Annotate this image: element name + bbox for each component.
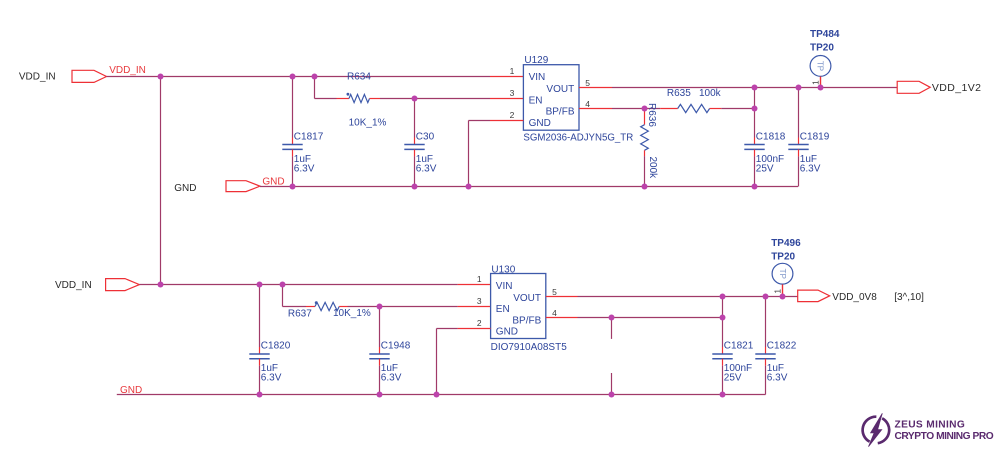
port GND (top circuit) — [226, 181, 260, 192]
svg-text:TP20: TP20 — [771, 251, 795, 262]
capacitor C1821 wire lower — [722, 359, 724, 366]
wire pin5 stub VOUT (red) — [579, 87, 612, 89]
svg-text:R637: R637 — [288, 308, 312, 319]
port VDD_1V2 — [897, 81, 930, 93]
svg-text:6.3V: 6.3V — [294, 163, 315, 174]
svg-text:1: 1 — [510, 66, 515, 76]
pin-1 dot R637 — [315, 301, 318, 304]
wire BP/FB net (bottom) — [578, 317, 723, 319]
svg-text:C1818: C1818 — [756, 132, 786, 143]
resistor R637 — [315, 302, 339, 310]
wire pin3 stub EN (red) — [490, 98, 523, 100]
wire pin1 stub VIN (red) — [490, 76, 523, 78]
svg-text:TP484: TP484 — [810, 29, 840, 40]
svg-text:10K_1%: 10K_1% — [349, 117, 387, 128]
svg-text:6.3V: 6.3V — [416, 163, 437, 174]
capacitor C1818 wire upper — [754, 88, 756, 138]
svg-text:EN: EN — [529, 95, 543, 106]
wire R635 left lead (red) — [660, 108, 678, 110]
svg-text:100k: 100k — [699, 88, 722, 99]
wire pin2 GND (U130) — [458, 328, 491, 330]
svg-text:C30: C30 — [416, 132, 435, 143]
svg-text:DIO7910A08ST5: DIO7910A08ST5 — [491, 342, 568, 353]
wire GND rail (bottom circuit) — [117, 394, 766, 396]
svg-text:6.3V: 6.3V — [261, 372, 282, 383]
svg-text:GND: GND — [496, 327, 518, 338]
svg-text:5: 5 — [585, 78, 590, 88]
svg-text:TP: TP — [816, 61, 825, 71]
capacitor C1818 wire lower — [754, 149, 756, 156]
capacitor C1948 wire upper — [379, 307, 381, 348]
capacitor C1822 wire lower — [765, 359, 767, 366]
wire R637 right lead — [339, 306, 347, 308]
svg-text:2: 2 — [477, 318, 482, 328]
svg-text:C1948: C1948 — [381, 341, 411, 352]
svg-text:CRYPTO MINING PRO: CRYPTO MINING PRO — [895, 431, 994, 442]
wire R634 branch vertical — [314, 77, 316, 99]
svg-text:C1819: C1819 — [800, 132, 830, 143]
wire VOUT net to VDD_0V8 — [578, 296, 798, 298]
wire R634 left lead — [315, 98, 337, 100]
op-amp U129 body — [523, 65, 579, 131]
svg-text:10K_1%: 10K_1% — [333, 308, 371, 319]
svg-text:VDD_0V8: VDD_0V8 — [832, 292, 877, 303]
svg-text:U129: U129 — [524, 55, 548, 66]
svg-text:SGM2036-ADJYN5G_TR: SGM2036-ADJYN5G_TR — [523, 133, 633, 144]
resistor R636 — [641, 125, 649, 151]
junction dots (top circuit) — [158, 74, 164, 80]
wire pin3 stub EN U130 (red) — [458, 306, 491, 308]
wire R636 bottom lead — [644, 150, 646, 156]
svg-text:[3^,10]: [3^,10] — [894, 292, 924, 303]
wire R636 top lead (red) — [644, 109, 646, 125]
svg-text:3: 3 — [477, 296, 482, 306]
svg-text:R635: R635 — [667, 88, 691, 99]
svg-text:VOUT: VOUT — [546, 84, 574, 95]
svg-text:VOUT: VOUT — [513, 293, 541, 304]
svg-text:EN: EN — [496, 304, 510, 315]
logo Zeus Mining emblem — [863, 413, 890, 446]
capacitor C1820 — [249, 353, 269, 355]
wire BP/FB to R635 — [612, 108, 660, 110]
svg-text:C1817: C1817 — [294, 132, 324, 143]
wire pin2 GND (U129) — [490, 120, 523, 122]
svg-text:1: 1 — [810, 80, 820, 85]
capacitor C1817 wire upper — [292, 77, 294, 138]
resistor R635 — [678, 104, 710, 112]
svg-text:6.3V: 6.3V — [767, 372, 788, 383]
svg-text:BP/FB: BP/FB — [546, 107, 575, 118]
svg-text:R636: R636 — [646, 103, 657, 127]
svg-text:VDD_1V2: VDD_1V2 — [932, 82, 982, 94]
capacitor C1948 wire lower — [379, 359, 381, 366]
capacitor C30 wire upper — [414, 99, 416, 138]
wire R637 left lead — [283, 306, 307, 308]
svg-text:TP496: TP496 — [771, 238, 801, 249]
capacitor C1821 — [712, 353, 732, 355]
port VDD_IN (bottom input connector) — [106, 279, 140, 291]
svg-text:1: 1 — [773, 289, 783, 294]
wire TP484 stub (red) — [820, 77, 822, 88]
svg-text:U130: U130 — [491, 265, 515, 276]
wire pin1 stub VIN U130 (red) — [458, 284, 491, 286]
wire pin4 stub BP/FB (red) — [579, 108, 612, 110]
wire dangling stub upper — [611, 318, 613, 339]
wire R635 right lead (red) — [710, 108, 722, 110]
svg-text:ZEUS MINING: ZEUS MINING — [895, 420, 966, 431]
svg-text:TP20: TP20 — [810, 42, 834, 53]
svg-text:6.3V: 6.3V — [800, 163, 821, 174]
capacitor C1948 — [369, 353, 389, 355]
port VDD_IN (top input connector) — [72, 70, 107, 82]
test point TP484 circle — [810, 56, 831, 77]
svg-text:4: 4 — [585, 99, 590, 109]
wire vertical trunk VDD_IN to bottom circuit — [160, 77, 162, 285]
svg-text:GND: GND — [174, 183, 196, 194]
pin-1 dot R634 — [347, 93, 350, 96]
svg-text:TP: TP — [778, 269, 787, 279]
port VDD_0V8 — [798, 290, 830, 302]
svg-text:VDD_IN: VDD_IN — [19, 72, 56, 83]
capacitor C1818 — [744, 144, 764, 146]
svg-text:4: 4 — [552, 308, 557, 318]
wire VOUT net to VDD_1V2 — [612, 87, 897, 89]
svg-text:VIN: VIN — [496, 281, 513, 292]
capacitor C1819 — [788, 144, 808, 146]
svg-text:VIN: VIN — [529, 72, 546, 83]
wire R635 to C1818 column — [721, 108, 754, 110]
test point TP496 circle — [772, 263, 793, 284]
op-amp U130 body — [491, 274, 546, 339]
svg-text:25V: 25V — [724, 372, 742, 383]
svg-text:VDD_IN: VDD_IN — [55, 280, 92, 291]
svg-text:VDD_IN: VDD_IN — [109, 65, 146, 76]
capacitor C1822 wire upper — [765, 297, 767, 348]
svg-text:1: 1 — [477, 274, 482, 284]
wire TP496 stub (red) — [782, 284, 784, 296]
junction dots (bottom circuit) — [158, 282, 164, 288]
capacitor C1820 wire lower — [259, 359, 261, 366]
wire dangling stub lower — [611, 373, 613, 395]
capacitor C1819 wire upper — [798, 88, 800, 138]
capacitor C1822 — [755, 353, 775, 355]
svg-text:25V: 25V — [756, 163, 774, 174]
capacitor C30 — [404, 144, 424, 146]
svg-text:3: 3 — [510, 88, 515, 98]
capacitor C1817 wire lower — [292, 149, 294, 156]
wire R634 right lead — [370, 98, 381, 100]
svg-text:C1822: C1822 — [767, 341, 797, 352]
wire VDD_IN main row (bottom) — [139, 284, 457, 286]
svg-text:BP/FB: BP/FB — [512, 315, 541, 326]
svg-text:5: 5 — [552, 287, 557, 297]
svg-text:2: 2 — [510, 110, 515, 120]
svg-text:C1820: C1820 — [261, 341, 291, 352]
capacitor C1821 wire upper — [722, 297, 724, 348]
wire GND rail (top circuit) — [260, 186, 798, 188]
svg-text:6.3V: 6.3V — [381, 372, 402, 383]
wire VDD_IN main row (top) — [107, 76, 491, 78]
capacitor C30 wire lower — [414, 149, 416, 156]
resistor R634 — [349, 94, 370, 102]
capacitor C1820 wire upper — [259, 285, 261, 348]
svg-text:R634: R634 — [347, 71, 371, 82]
svg-text:200k: 200k — [647, 157, 658, 180]
capacitor C1819 wire lower — [798, 149, 800, 156]
svg-text:C1821: C1821 — [724, 341, 754, 352]
wire pin5 stub VOUT U130 (red) — [546, 296, 578, 298]
wire pin4 stub BP/FB U130 (red) — [546, 317, 578, 319]
svg-text:GND: GND — [529, 118, 551, 129]
capacitor C1817 — [282, 144, 302, 146]
wire R637 branch vertical — [282, 285, 284, 307]
